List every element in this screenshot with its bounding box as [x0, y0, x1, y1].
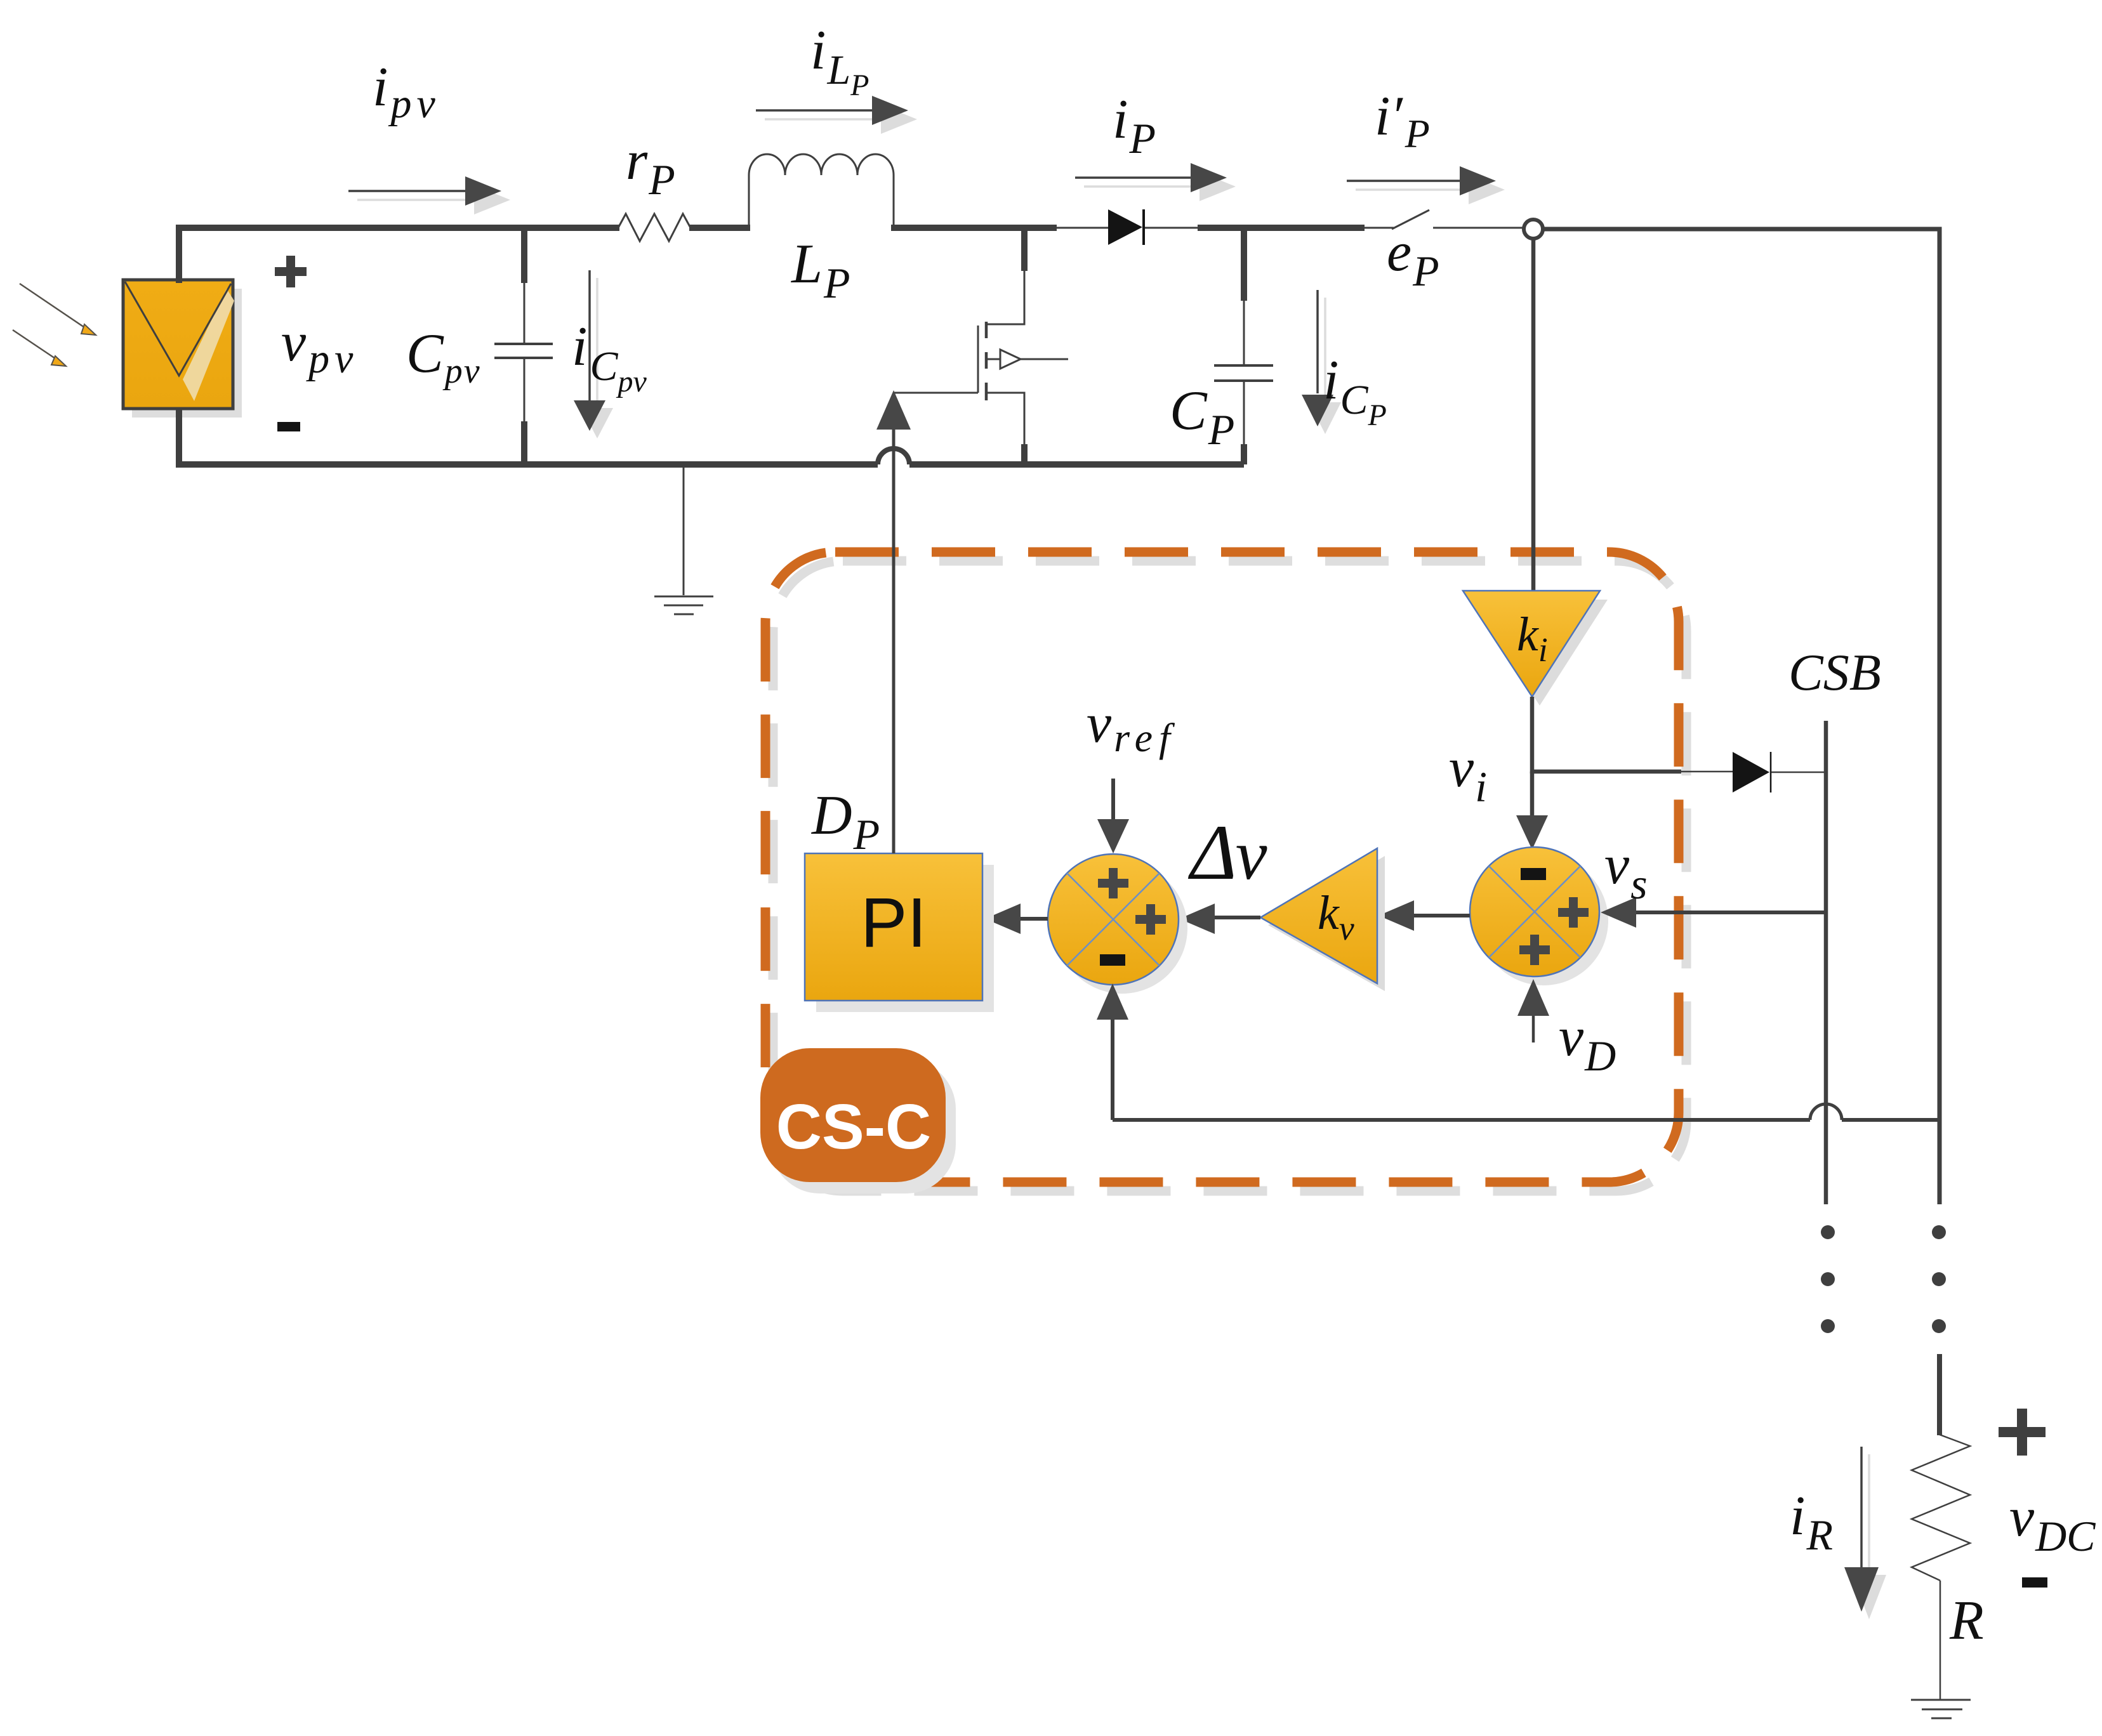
minus sign vDC [2022, 1577, 2047, 1588]
wire: thin lead to diode anode [1057, 227, 1109, 229]
minus sign at PV - terminal [277, 422, 300, 431]
svg-text:CSB: CSB [1788, 643, 1881, 701]
wire: vi branch to CSB diode [1532, 770, 1734, 774]
wire: vDC feedback from right bus with hop over CSB [1113, 1104, 1940, 1120]
inductor LP [749, 154, 894, 226]
wire: node down to ki gain [1531, 239, 1536, 592]
summer S2 (vi,vs,vD) [1470, 847, 1608, 985]
feedback arrow into S1 bottom [1097, 983, 1128, 1120]
CS-C controller dashed boundary box [765, 552, 1686, 1191]
wire DP from PI up to MOSFET gate with arrow [876, 390, 911, 853]
continuation dots DC bus column [1932, 1225, 1946, 1333]
gain ki triangle [1463, 591, 1608, 706]
wire: PV bottom lead [176, 409, 182, 468]
arrow vi into summer S2 [1516, 772, 1548, 850]
diode to CSB bus [1733, 752, 1826, 792]
wire: ki output to vi junction [1530, 697, 1535, 773]
ground symbol at R [1911, 1700, 1971, 1718]
summer S1 (vref, dv, feedback) [1048, 854, 1187, 994]
wire: node to right DC bus corner and down [1544, 229, 1940, 1204]
resistor R load [1912, 1435, 1970, 1581]
arrow iCP current [1302, 290, 1341, 434]
wire: thick bus diode to switch [1198, 225, 1365, 231]
capacitor Cpv [494, 228, 553, 464]
wire: R to ground [1940, 1581, 1941, 1700]
plus sign at PV + terminal [275, 256, 307, 287]
wire: rP to LP [689, 225, 750, 231]
ground symbol at bottom bus [654, 468, 713, 614]
wire: LP to MOSFET drain node [891, 225, 1057, 231]
resistor rP [618, 214, 691, 241]
arrow vD into S2 bottom [1517, 979, 1549, 1042]
CS-C badge [760, 1048, 956, 1193]
PV module PV1 [123, 280, 242, 418]
arrow ipv flow [348, 176, 510, 214]
switch eP [1365, 210, 1523, 229]
wire: bottom bus with hop over DP line [176, 461, 1244, 468]
svg-text:CS-C: CS-C [776, 1091, 931, 1162]
plus sign vDC [1999, 1409, 2046, 1456]
wire: top bus from PV to rP [179, 228, 619, 283]
arrow iCpv current [574, 270, 613, 438]
arrow iR current [1844, 1447, 1886, 1619]
gain kv triangle [1260, 848, 1385, 991]
arrow vref into S1 top [1097, 779, 1129, 853]
wire: bus hop arc over DP gate line [878, 449, 909, 464]
continuation dots CSB column [1821, 1225, 1835, 1333]
wire+arrow S1 output into PI [985, 904, 1048, 934]
arrow iP flow [1075, 163, 1236, 201]
transistor Q1 (MOSFET) [894, 228, 1068, 464]
capacitor CP [1214, 228, 1273, 464]
svg-text:Δv: Δv [1187, 809, 1267, 896]
node: output junction circle [1524, 220, 1543, 239]
diode DP (boost diode) [1108, 209, 1144, 245]
arrow i'P flow [1347, 166, 1505, 204]
PI controller block [805, 853, 994, 1012]
sun ray arrows [13, 284, 96, 366]
svg-text:R: R [1949, 1590, 1984, 1652]
wire+arrow S2 output into kv [1378, 900, 1470, 931]
wire: diode cathode lead [1145, 227, 1199, 229]
svg-text:PI: PI [861, 884, 927, 962]
wire+arrow vs from CSB bus into S2 [1601, 897, 1824, 928]
arrow iLP flow [756, 96, 917, 134]
wire: DC bus resume above load [1937, 1354, 1942, 1435]
wire+arrow kv output into S1 [1179, 904, 1260, 934]
CSB bus vertical [1824, 721, 1828, 1204]
